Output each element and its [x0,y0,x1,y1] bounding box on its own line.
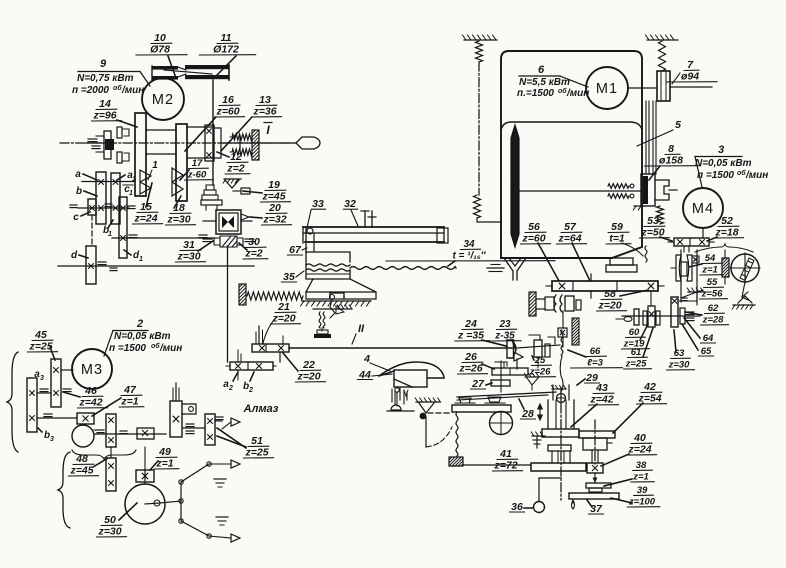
spring hanger lower [474,195,481,218]
column slab upper [542,429,579,437]
leader 30 [239,243,247,250]
svg-text:N=0,05 кВт: N=0,05 кВт [114,331,171,342]
hatch pivot small [525,376,539,378]
worm 31 hatched [220,236,237,247]
shaft M1 to pulley 7 [628,87,657,89]
svg-text:t = ¹/₁₆″: t = ¹/₁₆″ [452,251,486,262]
leader 34 [448,261,455,266]
disc 50 [125,484,165,524]
svg-text:11: 11 [221,32,232,44]
gear a-b column [96,172,106,224]
leader 18 [174,196,181,208]
leader 22 [283,353,298,371]
leader c [81,212,90,216]
spindle drum [146,129,176,131]
leader 25 [532,356,534,360]
svg-text:z=25: z=25 [625,359,648,370]
leader 13 [221,117,252,151]
svg-text:z=20: z=20 [597,300,621,312]
leader 24 [482,340,506,346]
svg-text:61: 61 [631,347,642,358]
svg-text:N=0,75 кВт: N=0,75 кВт [77,73,134,84]
leader 43 [571,404,597,427]
leader 42 [613,403,643,433]
svg-text:19: 19 [268,179,280,191]
worm box 47 [77,413,94,424]
shaft below bar 21 [279,352,281,362]
column 29 body [547,400,549,429]
leader 8 [649,166,660,180]
crank inside 50 [145,503,160,504]
leader 49 [150,461,158,470]
column lower verticals [551,451,553,463]
svg-text:53: 53 [647,215,659,227]
cone clutch 17 triangles [172,168,183,196]
leader a1 [117,175,125,180]
flag almaz [231,418,240,426]
svg-text:2: 2 [136,318,143,330]
svg-text:41: 41 [499,448,512,460]
leader 59 [622,243,643,256]
leader 15 [146,183,152,207]
svg-text:33: 33 [312,198,324,210]
leader 37 [587,500,592,507]
svg-text:М4: М4 [692,201,714,217]
svg-text:z=42: z=42 [589,394,613,406]
leader 56 [538,243,559,281]
leader 53 [660,237,672,241]
motor M4 [683,188,723,228]
svg-text:z=26: z=26 [529,367,552,378]
svg-text:z=45: z=45 [69,465,93,477]
hatched wall for springs [252,130,259,160]
svg-text:66: 66 [590,346,601,357]
datum marks end of belt [487,267,504,269]
shaft a3b3 to wormbox 47 [37,417,77,419]
svg-text:М3: М3 [81,362,103,378]
hatched pivot support [416,401,440,403]
pulley 14 input cluster [104,131,111,159]
svg-text:z=72: z=72 [493,460,517,472]
machine column body [501,51,642,258]
input shaft left marks [86,142,104,144]
svg-text:28: 28 [521,408,534,420]
svg-text:57: 57 [564,221,577,233]
tool cone on spindle I [296,137,320,149]
svg-text:42: 42 [643,381,656,393]
shaft d bottom [58,265,254,267]
svg-text:3: 3 [50,436,54,443]
svg-text:60: 60 [629,327,640,338]
leader 45 [50,347,55,360]
second curly brace left [58,452,70,528]
gear bar 26 [492,368,528,375]
shaft 45 to a3 [37,392,51,394]
leader 57 [572,243,590,281]
column pedestal base [610,258,633,265]
svg-text:58: 58 [604,288,616,300]
svg-text:34: 34 [463,239,475,250]
gear d1 tall [119,197,127,258]
svg-text:3: 3 [40,375,44,382]
svg-text:39: 39 [637,485,648,496]
motor M2 [142,78,184,120]
leader 40 [601,454,629,466]
svg-text:z=30: z=30 [176,251,200,263]
bar 41 [531,463,586,471]
spring under pulley 8 [657,206,664,224]
flag lower right [209,536,231,538]
svg-text:38: 38 [636,460,647,471]
svg-text:31: 31 [183,239,195,251]
small gear on shaft [634,309,639,325]
leader 28 [519,399,524,409]
gear a1-b1 column [111,173,120,224]
spring hanger left [476,41,483,62]
svg-text:М2: М2 [152,92,174,108]
belt pulley 10-11 assembly [152,66,178,70]
svg-text:z=30: z=30 [668,360,691,371]
leader 21 [263,317,277,343]
hatched wall left of spring [239,284,246,305]
leader 47 [92,398,121,416]
motor M3 [72,349,112,389]
svg-text:6: 6 [538,64,545,76]
dash-dot suspension [478,62,480,195]
horizontal spring to slide [247,292,303,300]
leader 52 [707,237,717,241]
hatch on column right edge [634,205,642,207]
narrow slab [548,445,571,451]
svg-text:13: 13 [259,94,271,106]
dashed link c-d [91,215,93,246]
leader 12 [217,152,229,157]
shaft I output [221,142,296,144]
svg-text:20: 20 [268,202,281,214]
weight [449,457,463,466]
vertical below xbox 40 [594,473,596,483]
ground under pedestal [302,300,371,302]
svg-text:49: 49 [158,446,171,458]
svg-text:c: c [73,212,79,223]
svg-text:18: 18 [173,202,185,214]
circle 36 knob [534,502,545,513]
spindle I centerline [60,142,295,144]
bevel pair on shaft II [507,340,514,358]
leader 27 [486,383,492,385]
pivot blob [420,413,427,420]
column bottom funnel [504,258,513,280]
svg-text:4: 4 [363,353,370,365]
leader 51b [217,428,246,448]
svg-text:z=100: z=100 [628,497,656,508]
leader 26 [482,364,494,369]
motor M1 [586,67,628,109]
dashes from pivot [428,412,452,414]
shaft below bar 52 [683,246,685,252]
leader d [79,255,88,258]
svg-text:z=64: z=64 [557,233,581,245]
leader b [84,191,97,196]
leader d1 [124,250,131,255]
big curly brace left [7,352,18,452]
svg-text:z=25: z=25 [28,341,52,353]
svg-text:5: 5 [675,119,681,131]
svg-text:2: 2 [248,387,253,394]
svg-text:об: об [151,342,160,350]
svg-text:z=36: z=36 [252,106,276,118]
leader 16 [185,117,216,151]
svg-text:65: 65 [701,346,712,357]
leader 20 [250,217,262,218]
bar 39 [569,493,619,499]
svg-text:z=18: z=18 [714,227,738,239]
gear bar 56-59 [552,281,658,291]
leader 64 [684,318,700,338]
handwheel support leg [742,282,745,297]
svg-text:z-60: z-60 [187,170,207,181]
squiggle 66 line [561,330,563,356]
handwheel [731,254,759,282]
spring pair right of spindle [232,134,252,140]
gear block 60-61 [643,311,647,325]
shaft into xbox 40 [591,450,593,463]
cord from table [456,412,458,456]
svg-text:23: 23 [498,319,511,330]
svg-text:z=20: z=20 [296,371,320,383]
svg-text:59: 59 [611,221,623,233]
svg-text:d: d [71,250,78,261]
follower foot [391,405,401,410]
svg-text:56: 56 [528,221,540,233]
leader 10 [168,56,176,78]
bar 32 beam [303,226,444,228]
shafts around bar 22 [237,350,239,362]
svg-text:21: 21 [277,301,290,313]
svg-text:z =35: z =35 [457,330,484,342]
svg-text:ø158: ø158 [659,155,683,167]
leader 38 [604,479,632,486]
up-down arrow 28 [538,404,542,420]
svg-text:/мин: /мин [159,343,182,354]
brace over handwheel unit [695,244,753,252]
worm unit frame [680,250,682,302]
gear a3 b3 column [27,378,37,432]
svg-text:ø94: ø94 [681,71,699,83]
xbox 40 [587,463,603,473]
long wavy belt line 34 [350,267,456,270]
gear d [86,246,96,284]
leader 14 [117,120,137,127]
svg-text:26: 26 [464,351,477,363]
leader 65 [682,324,698,350]
svg-text:45: 45 [34,329,47,341]
svg-text:z=42: z=42 [78,397,102,409]
svg-text:z=45: z=45 [261,191,285,203]
svg-text:об: об [113,84,122,92]
vertical shaft from pulley 11 [212,80,214,185]
gear bar 52 [674,238,709,246]
shaft 47 to 49 [94,433,166,435]
leader 7 [670,86,712,88]
pulley 8 block [641,174,655,206]
vertical shaft below worm [227,246,229,362]
svg-text:z=28: z=28 [702,315,725,326]
svg-text:67: 67 [289,244,302,256]
gears 25 on shaft [534,340,542,357]
thrust plate 19 [201,200,222,205]
svg-text:16: 16 [222,94,234,106]
leader 63 [674,330,676,352]
svg-text:п.=1500: п.=1500 [517,88,554,99]
gear bar 21 [252,344,289,352]
svg-text:z=54: z=54 [637,393,661,405]
cylinder 49 follower [170,401,182,437]
svg-text:51: 51 [251,435,263,447]
comb strokes [391,389,393,402]
leader 29 [577,379,585,385]
shaft M3 to gear45 [61,369,73,371]
xbox in frame corner [692,256,699,263]
gear 13 sleeve [205,125,214,161]
hatch top of column [552,388,566,390]
bars 38 [586,483,611,488]
leader 48 [93,458,108,467]
column inner divider [501,122,642,130]
leader b1 [108,220,113,228]
clamp symbol on beam [364,211,366,227]
svg-text:z=24: z=24 [627,444,651,456]
svg-text:Ø78: Ø78 [150,44,170,56]
leader 58 [620,290,648,296]
cone clutch 1 left [140,170,151,194]
bracket arm of shoe [305,228,307,252]
cone pulley disc left [135,113,146,196]
svg-text:a: a [75,169,81,180]
svg-text:z=60: z=60 [215,106,239,118]
leader 36 [524,507,533,509]
leader 61 [643,328,653,357]
shaft a-a1 [82,181,134,183]
svg-text:об: об [558,87,567,95]
svg-text:п =1500: п =1500 [109,343,146,354]
gear 48 upper [106,414,116,447]
wheel shaft inside column [518,190,641,192]
tall gear 63 [671,297,678,327]
shaft II [289,347,512,349]
leader 17 [180,170,189,180]
far right corner hatch [688,291,706,293]
svg-text:Алмаз: Алмаз [243,403,279,415]
gear bar 27 [491,380,510,386]
pulley 7 [657,71,670,101]
gear 48 lower [106,458,116,491]
svg-text:9: 9 [100,58,107,70]
belt M1 to wheel [645,101,647,174]
svg-text:z=24: z=24 [133,213,157,225]
svg-text:ℓ=3: ℓ=3 [587,358,603,369]
leader 55 [681,290,703,298]
svg-text:1: 1 [139,256,143,263]
leader 54 [689,264,702,267]
svg-text:12: 12 [230,151,242,163]
pivot linkage under pedestal [330,295,335,300]
gear bar 22 a2 b2 [230,362,273,370]
worm shaft stepped stack [206,185,214,190]
hook pendant [572,500,575,509]
leader 50 [119,503,137,520]
hatched guide strip [572,318,579,345]
lever arm [457,392,556,397]
svg-text:Ø172: Ø172 [213,44,239,56]
svg-text:z=1: z=1 [155,458,173,470]
svg-text:/мин: /мин [745,170,768,181]
column 29 clevis [552,385,554,400]
svg-text:об: об [737,169,746,177]
gears 51 pair [205,414,215,445]
svg-text:14: 14 [99,98,111,110]
svg-text:z=1: z=1 [632,472,649,483]
svg-text:22: 22 [302,359,315,371]
svg-text:36: 36 [511,501,523,513]
svg-text:64: 64 [703,333,714,344]
xbox on shaft 48 [137,428,154,439]
cone pulley disc right [176,124,187,201]
svg-text:z=25: z=25 [244,447,268,459]
gear c [88,199,96,215]
lever pivot circle [557,394,566,403]
svg-text:48: 48 [75,453,88,465]
svg-text:z=32: z=32 [262,214,286,226]
svg-text:z=56: z=56 [701,289,724,300]
svg-text:35: 35 [283,271,295,283]
leader 39 [611,498,632,503]
springs on wheel shaft [608,184,629,189]
slab 42 extension [579,431,615,438]
ceiling hatch left [464,39,497,41]
lever feet [459,398,471,403]
small pedestal foot [321,328,323,331]
shoe 35 box with waves [306,252,350,262]
svg-text:8: 8 [668,143,674,155]
svg-text:z=60: z=60 [521,233,545,245]
pivot drop line [425,417,427,447]
shafts above bar 21 [258,326,260,344]
svg-text:27: 27 [471,378,485,390]
hatched support left of column [532,435,545,437]
ceiling hatch right [647,39,678,41]
leader a [83,174,97,180]
leader 31 [198,241,213,251]
squiggle 59 feed [645,246,647,262]
abrasive belt strip [511,125,519,247]
bevel gear box 20 [216,210,241,234]
svg-text:z=1: z=1 [701,265,718,276]
svg-text:24: 24 [464,318,477,330]
dashed arc [426,427,452,447]
svg-text:37: 37 [590,503,603,515]
leader 19 [243,191,262,193]
leader 23 [512,340,516,350]
linkage from disc 50 [160,501,181,503]
roller wheel [490,412,513,435]
svg-text:М1: М1 [596,81,618,97]
svg-text:62: 62 [708,303,719,314]
svg-text:40: 40 [633,432,646,444]
gear 64-65 small [680,308,685,324]
leader 51a [217,436,246,447]
cam wing shape [379,362,444,378]
